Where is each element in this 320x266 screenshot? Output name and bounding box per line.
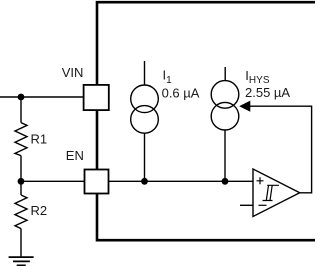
hysteresis symbol — [263, 185, 280, 200]
current source I1 — [131, 85, 159, 133]
node EN junction dot left — [18, 178, 25, 185]
svg-text:R2: R2 — [31, 203, 48, 218]
node I1-EN junction dot — [141, 178, 148, 185]
pin - input mark — [259, 204, 267, 206]
wire left rail middle — [20, 156, 22, 195]
arrow into IHYS — [240, 101, 250, 111]
wire I1 top stub — [144, 61, 146, 85]
resistor R1 — [15, 123, 27, 156]
op-amp comparator U2 — [253, 169, 300, 217]
IC box outline U1 — [97, 2, 316, 241]
svg-text:VIN: VIN — [62, 65, 84, 80]
wire left rail upper — [20, 97, 22, 123]
wire - input stub — [240, 204, 253, 206]
svg-text:R1: R1 — [31, 131, 48, 146]
wire VIN horizontal — [0, 96, 84, 98]
svg-text:0.6 µA: 0.6 µA — [162, 85, 200, 100]
svg-text:2.55 µA: 2.55 µA — [245, 85, 290, 100]
pin + input mark — [257, 177, 264, 184]
wire I1 bottom — [144, 133, 146, 181]
pin EN square — [85, 170, 109, 194]
wire left rail lower — [20, 229, 22, 257]
wire IHYS bottom — [224, 130, 226, 181]
wire feedback from comparator output — [250, 106, 312, 193]
node IHYS-EN junction dot — [222, 178, 229, 185]
wire IHYS top stub — [224, 67, 226, 81]
resistor R2 — [15, 195, 27, 229]
node VIN junction dot — [18, 94, 25, 101]
current source IHYS — [211, 81, 239, 130]
ground — [9, 257, 34, 265]
pin VIN square — [84, 85, 109, 110]
svg-text:EN: EN — [66, 148, 84, 163]
wire EN horizontal — [21, 180, 253, 182]
